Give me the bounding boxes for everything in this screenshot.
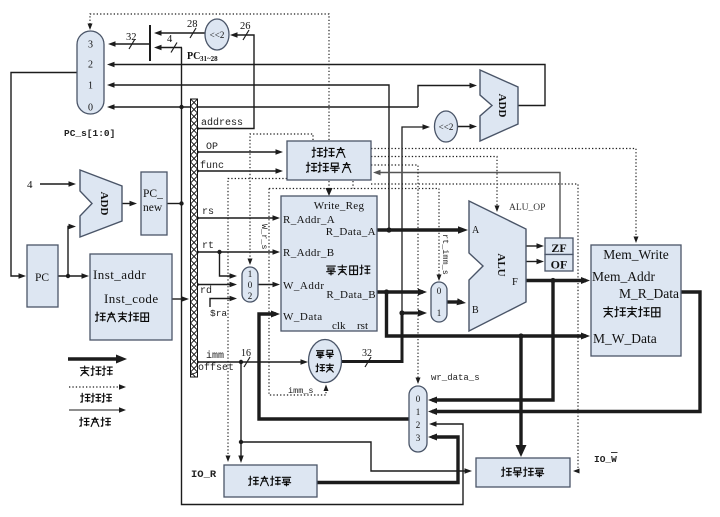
wire rs to R_Addr_A [195,215,280,220]
svg-text:offset: offset [198,362,234,374]
label 寄存器堆 [327,265,370,275]
label 4 bits [167,34,177,53]
wire R_Data_B down to M_W_Data [387,292,591,340]
label PC31-28 [187,51,218,63]
wire PC to Inst_addr [58,273,89,278]
wire Inst_code to IR bar [172,296,189,301]
svg-text:M_W_Data: M_W_Data [593,331,657,346]
label rt [202,241,214,252]
svg-text:wr_data_s: wr_data_s [431,373,480,383]
wire PC_new output [167,203,182,205]
svg-text:Mem_Write: Mem_Write [603,247,668,262]
label 输入设备 [249,476,291,486]
wire W_Addr mux to register file [258,282,280,287]
wire branch to output device [241,442,472,474]
label rs [202,207,214,218]
wire rt branch to W_Addr mux port1 [220,252,238,279]
svg-text:clk: clk [332,320,346,332]
svg-text:32: 32 [126,32,137,43]
svg-text:OP: OP [206,142,218,153]
label 数据存储器 [604,307,660,317]
svg-text:2: 2 [416,420,421,430]
control imm_s rt_imm_s dotted bus [269,181,439,189]
wire port0 riser to ADD input A [418,83,477,107]
label 32 [126,32,137,49]
wire ADD result to mux port2 [107,62,545,106]
wire imm to sign-extend [195,359,308,364]
svg-text:1: 1 [437,308,442,318]
svg-text:OF: OF [551,258,568,272]
legend label 指令流 [80,417,111,426]
control PC_s dotted [88,14,330,140]
wire ADD to PC_new [122,201,137,206]
svg-text:Write_Reg: Write_Reg [314,200,365,212]
wire $ra stub to W_Addr mux port2 [210,296,237,307]
instruction memory 指令存储器 [90,254,172,340]
wire mux output to PC [11,73,77,279]
svg-text:Inst_code: Inst_code [104,291,159,306]
svg-text:F: F [512,277,518,288]
wire imm_s riser to <<2 [402,124,430,313]
wire rd to W_Addr mux port0 [195,282,237,287]
legend control flow arrow [69,384,126,390]
svg-text:3: 3 [416,433,421,443]
legend label 控制流 [81,393,112,402]
wire R_Data_A to ALU A (data) [377,226,468,234]
instruction field bar (hatched) [191,99,198,382]
wire ALU F to Mem_Addr (data) [526,277,590,284]
label 控制单元 [306,162,351,172]
label func [200,160,224,172]
svg-text:rs: rs [202,207,214,218]
svg-text:imm_s: imm_s [288,386,314,396]
svg-text:rt: rt [202,241,214,252]
svg-text:0: 0 [437,286,442,296]
mux rt_imm_s (ALU B select) [431,282,447,322]
flag ZF [545,238,573,255]
svg-text:1: 1 [88,81,93,92]
svg-text:<<2: <<2 [210,30,225,40]
svg-text:rd: rd [200,285,212,297]
control IO_R dotted [226,179,288,463]
control W_r_s dotted [248,134,314,265]
svg-text:0: 0 [416,394,421,404]
adder ADD (PC+4) [80,170,122,237]
svg-text:IO_W: IO_W [594,454,617,465]
data memory 数据存储器 [591,245,681,356]
svg-text:Inst_addr: Inst_addr [93,267,146,282]
wire <<2 to ADD input B [458,124,478,129]
wire flags feedback to control [373,170,560,238]
control rt_imm_s dotted [437,189,442,282]
wire F down to wr mux port0 [428,281,553,404]
wire M_R_Data to wr mux port1 [428,292,700,415]
svg-text:0: 0 [248,280,253,290]
svg-text:Mem_Addr: Mem_Addr [592,269,655,284]
svg-text:W_Addr: W_Addr [283,280,325,292]
flag OF [545,255,573,272]
wire imm branch down to input device [238,362,243,463]
adder ADD (branch) [480,70,518,141]
wire wr mux out to W_Data [259,311,409,420]
shifter <<2 (branch) [435,111,458,142]
svg-text:ALU_OP: ALU_OP [509,203,545,213]
label offset [198,362,234,374]
shifter <<2 (jump) [205,19,229,50]
svg-text:R_Addr_A: R_Addr_A [283,214,335,226]
register file 寄存器堆 [281,196,377,332]
svg-text:PC_s[1:0]: PC_s[1:0] [64,128,115,139]
label address [201,117,243,129]
label imm [206,350,224,362]
svg-text:PC: PC [35,272,49,284]
wire <<2 to joiner (28) [154,30,205,35]
control Write_Reg dotted [326,181,333,196]
control Mem_Write dotted [371,149,639,244]
label 译码及 [312,147,345,157]
control wr_data_s dotted [371,165,421,384]
wire imm_s to ALU mux port1 [399,310,427,317]
wire joiner to mux port3 (32) [108,41,150,46]
bus joiner bar [149,25,151,61]
svg-text:address: address [201,117,243,129]
svg-text:M_R_Data: M_R_Data [619,286,679,301]
svg-text:W_Data: W_Data [283,311,323,323]
svg-text:<<2: <<2 [439,122,454,132]
wire branch down to output device [516,336,527,457]
svg-text:ZF: ZF [551,241,566,255]
ALU [469,201,526,331]
svg-text:1: 1 [248,269,253,279]
label W_r_s [259,224,269,250]
svg-text:ADD: ADD [496,94,508,118]
wire rt to R_Addr_B [195,249,280,254]
svg-text:B: B [472,305,479,316]
svg-text:rst: rst [357,320,368,332]
label rt_imm_s [440,234,450,275]
wire input device to wr mux port3 [317,434,458,483]
svg-text:2: 2 [88,60,93,71]
label 16 [241,348,251,367]
wire OP to control [195,149,283,154]
svg-text:31~28: 31~28 [200,55,218,63]
wire R_Data_A to mux port1 [107,82,389,229]
wire R_Data_B to ALU mux port0 (data) [377,289,427,296]
wire constant 4 to ADD [40,181,76,186]
svg-text:imm: imm [206,350,224,362]
mux PC_s (next-PC select) [77,31,104,114]
label 4 [27,179,33,191]
control IO_W dotted [371,184,580,474]
legend instruction flow arrow [69,407,126,413]
control ALU_OP dotted [371,157,500,213]
label 指令存储器 [95,312,148,322]
label wr_data_s [431,373,480,383]
legend data flow arrow [68,355,127,364]
svg-text:2: 2 [248,291,253,301]
svg-text:R_Data_A: R_Data_A [326,226,376,238]
wire func to control [195,168,283,173]
label 符号 [317,350,334,358]
svg-text:func: func [200,160,224,172]
label $ra [210,308,227,319]
svg-text:0: 0 [88,103,93,114]
label 扩展 [316,364,334,372]
sign extender 符号扩展 [309,340,342,383]
svg-text:rt_imm_s: rt_imm_s [440,234,450,275]
output device 输出设备 [476,458,570,487]
wire ALU B mux out [447,298,466,306]
label PC_s[1:0] [64,128,115,139]
label ALU_OP [509,203,545,213]
label 输出设备 [502,467,544,477]
svg-text:1: 1 [416,407,421,417]
svg-text:PC: PC [187,51,200,62]
label imm_s [288,386,314,396]
label IO_W [594,453,618,466]
svg-text:W_r_s: W_r_s [259,224,269,250]
svg-text:ALU: ALU [495,253,507,276]
svg-text:4: 4 [167,34,173,45]
wire PC up to ADD [68,224,76,276]
svg-text:A: A [472,225,480,236]
svg-text:3: 3 [88,40,93,51]
svg-text:$ra: $ra [210,308,227,319]
svg-text:new: new [143,202,163,214]
wire PC_new to mux port0 [107,104,418,109]
mux wr_data_s (write-back select) [409,386,427,452]
label 28 [187,19,198,38]
wire address field tap [195,127,199,131]
wire sign-extend out 32-bit [341,313,402,367]
label OP [206,142,218,153]
svg-text:PC_: PC_ [143,188,163,200]
wire PC31-28 to joiner (4) [154,45,182,50]
control unit 译码及控制单元 [287,141,371,180]
register PC [27,245,58,307]
label 26 [240,21,251,40]
input device 输入设备 [224,465,317,497]
svg-text:R_Addr_B: R_Addr_B [283,247,334,259]
wire PC_new vertical to wr mux port2 [179,48,463,505]
label rd [200,285,212,297]
label IO_R [191,469,217,481]
wire ALU to ZF [526,243,544,248]
wire address to <<2 (26) [197,32,254,128]
svg-text:IO_R: IO_R [191,469,217,481]
register PC_new [141,172,167,235]
legend label 数据流 [80,366,112,376]
svg-text:ADD: ADD [98,192,110,216]
control imm_s dotted [269,189,329,396]
svg-text:R_Data_B: R_Data_B [326,289,376,301]
wire ALU to OF [526,259,544,264]
mux W_r_s (write reg select) [242,267,258,302]
svg-text:4: 4 [27,179,33,191]
